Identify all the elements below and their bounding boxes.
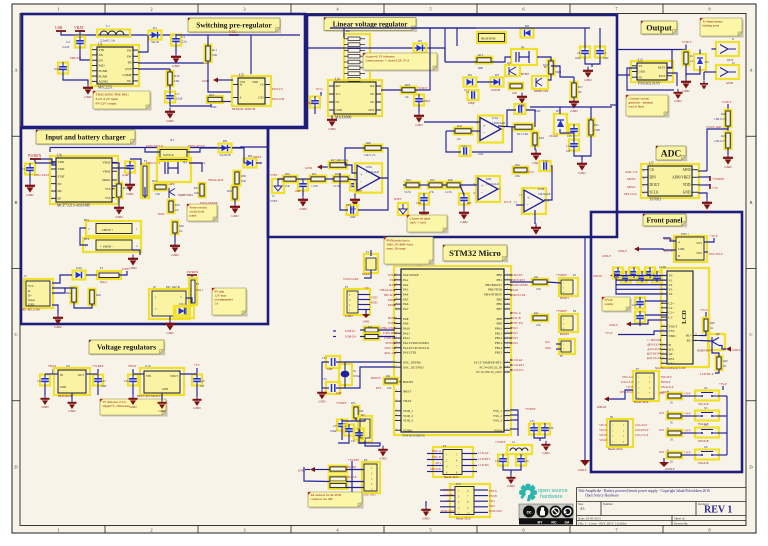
svg-text:P2: P2 <box>573 273 577 277</box>
svg-text:D+: D+ <box>28 294 32 298</box>
svg-text:GND: GND <box>422 517 430 521</box>
svg-text:PA7: PA7 <box>403 307 409 311</box>
svg-text:SA: SA <box>565 521 570 525</box>
svg-text:PA14/TCK/SWCLK: PA14/TCK/SWCLK <box>403 346 430 350</box>
svg-text:P4: P4 <box>573 309 577 313</box>
svg-text:R35: R35 <box>430 179 435 182</box>
svg-text:9V-22V output: 9V-22V output <box>96 102 117 106</box>
svg-text:SW4-P-B: SW4-P-B <box>698 462 709 465</box>
svg-text:BL+: BL+ <box>686 334 692 338</box>
svg-text:R: R <box>667 391 669 394</box>
svg-text:EN: EN <box>99 58 104 62</box>
svg-text:VSS_3: VSS_3 <box>493 419 502 423</box>
svg-text:COMP: COMP <box>122 73 131 77</box>
svg-text:+3VREF: +3VREF <box>712 177 724 181</box>
svg-text:GND: GND <box>129 266 137 270</box>
svg-text:+3VREF: +3VREF <box>556 273 567 277</box>
svg-text:VBAT-ADC: VBAT-ADC <box>208 178 224 182</box>
svg-text:10nF: 10nF <box>535 110 541 113</box>
svg-text:LCD-CL-P: LCD-CL-P <box>621 381 634 384</box>
svg-text:22u: 22u <box>182 40 187 44</box>
svg-text:U8A: U8A <box>366 165 373 169</box>
svg-text:1K: 1K <box>710 327 713 330</box>
svg-text:Input and battery charger: Input and battery charger <box>45 134 126 142</box>
svg-text:BL-: BL- <box>687 339 692 343</box>
svg-text:STAT: STAT <box>58 175 65 179</box>
svg-text:CHG-STAT: CHG-STAT <box>34 173 49 177</box>
svg-text:RXD: RXD <box>389 283 397 287</box>
svg-text:GND: GND <box>54 325 62 329</box>
svg-text:X5: X5 <box>704 424 708 427</box>
svg-text:Header 5X2A: Header 5X2A <box>634 401 649 404</box>
svg-text:+3V-P: +3V-P <box>684 393 691 396</box>
svg-text:MISO: MISO <box>627 185 636 189</box>
svg-text:C10: C10 <box>519 103 524 107</box>
svg-text:GND-P: GND-P <box>665 467 675 471</box>
svg-text:V1: V1 <box>669 278 673 282</box>
svg-text:BOOT1: BOOT1 <box>560 297 570 300</box>
svg-text:C21: C21 <box>37 380 42 383</box>
svg-text:D8: D8 <box>248 154 252 158</box>
svg-text:R11: R11 <box>212 48 217 52</box>
svg-text:C36: C36 <box>549 427 554 430</box>
svg-text:LCD1: LCD1 <box>659 265 667 269</box>
svg-text:RST: RST <box>669 357 675 361</box>
svg-text:GND: GND <box>570 109 578 113</box>
svg-text:GND: GND <box>193 406 201 410</box>
svg-text:File: 1 - Cover - REV_REV: File: 1 - Cover - REV_REV 1.SchDoc <box>578 522 627 526</box>
svg-text:SI: SI <box>669 343 672 347</box>
svg-text:AIN0/VREF: AIN0/VREF <box>672 175 690 179</box>
svg-text:NA5W-K: NA5W-K <box>163 154 174 157</box>
svg-text:R13: R13 <box>478 53 484 57</box>
svg-text:U2: U2 <box>638 59 643 63</box>
svg-text:PAD: PAD <box>99 64 106 68</box>
svg-text:POT-CS: POT-CS <box>272 87 283 91</box>
svg-text:CS: CS <box>260 83 264 87</box>
svg-text:COM: COM <box>678 248 685 251</box>
svg-text:C2-: C2- <box>669 306 674 310</box>
svg-text:BOOT0: BOOT0 <box>371 376 381 380</box>
svg-text:VOUT: VOUT <box>170 374 178 378</box>
svg-text:DIN: DIN <box>650 175 657 179</box>
svg-text:P10: P10 <box>456 482 461 486</box>
svg-text:OUT: OUT <box>78 373 84 377</box>
svg-text:PB4/JNTRST: PB4/JNTRST <box>484 293 502 297</box>
svg-text:LCD-A0: LCD-A0 <box>512 358 523 362</box>
svg-text:PA4: PA4 <box>403 293 409 297</box>
svg-text:Drawn By:: Drawn By: <box>674 522 688 526</box>
svg-text:PB15: PB15 <box>495 351 502 355</box>
svg-text:+3V-P: +3V-P <box>684 413 691 416</box>
svg-text:GND: GND <box>507 484 515 488</box>
svg-text:1K: 1K <box>670 439 673 442</box>
svg-text:GND: GND <box>28 303 34 307</box>
svg-text:U6: U6 <box>57 154 62 158</box>
svg-text:1: 1 <box>57 7 59 12</box>
svg-text:10K: 10K <box>212 53 218 57</box>
svg-text:VDDA: VDDA <box>403 428 413 432</box>
svg-text:100nF: 100nF <box>330 430 337 433</box>
svg-text:SPOT-CTR: SPOT-CTR <box>512 293 525 297</box>
svg-text:C39: C39 <box>495 460 500 463</box>
svg-text:D9: D9 <box>223 139 227 143</box>
svg-text:NC: NC <box>370 100 374 104</box>
svg-text:VOUT-ADC: VOUT-ADC <box>343 277 359 281</box>
svg-text:1uF: 1uF <box>200 385 205 388</box>
svg-text:R21 2.2K: R21 2.2K <box>517 132 529 136</box>
svg-text:2.4K 0.1%: 2.4K 0.1% <box>714 140 727 143</box>
svg-text:U3A: U3A <box>492 116 499 120</box>
svg-text:C: C <box>749 332 752 337</box>
svg-text:PA6: PA6 <box>403 302 409 306</box>
svg-text:VDD: VDD <box>669 334 677 338</box>
svg-text:PA2: PA2 <box>403 283 409 287</box>
svg-text:+3VREF: +3VREF <box>92 364 104 368</box>
svg-text:ENCB: ENCB <box>489 494 497 498</box>
svg-text:47K: 47K <box>285 185 290 188</box>
svg-text:VBAT: VBAT <box>403 399 411 403</box>
svg-text:Sense: Sense <box>28 298 35 302</box>
svg-text:R35: R35 <box>175 203 180 207</box>
svg-text:LM324AD: LM324AD <box>366 170 379 174</box>
svg-text:ADC: ADC <box>661 149 682 159</box>
svg-text:A: A <box>678 241 680 244</box>
svg-text:hardware: hardware <box>540 494 562 500</box>
svg-text:22nF: 22nF <box>478 153 484 156</box>
svg-text:PB10: PB10 <box>495 326 502 330</box>
svg-text:POW-SW1: POW-SW1 <box>441 509 455 513</box>
svg-text:PB9: PB9 <box>497 322 503 326</box>
svg-text:SW1-P: SW1-P <box>599 424 607 427</box>
svg-text:10K: 10K <box>359 410 364 413</box>
svg-text:V3: V3 <box>669 288 673 292</box>
svg-text:PROG: PROG <box>102 178 111 182</box>
svg-text:1N4148: 1N4148 <box>491 89 501 92</box>
svg-text:USB-D-: USB-D- <box>345 329 356 333</box>
svg-text:C11: C11 <box>462 144 467 148</box>
svg-text:180pF: 180pF <box>468 102 475 105</box>
svg-text:BT2: BT2 <box>84 237 90 241</box>
svg-text:VCC: VCC <box>528 170 535 174</box>
svg-text:OSC_IN/PD0: OSC_IN/PD0 <box>403 360 421 364</box>
svg-text:R18: R18 <box>405 83 411 87</box>
svg-text:GND: GND <box>379 457 387 461</box>
svg-text:R33: R33 <box>351 402 356 405</box>
svg-text:PB14: PB14 <box>495 346 502 350</box>
svg-text:GND: GND <box>172 64 180 68</box>
svg-text:ENC-A: ENC-A <box>432 449 442 453</box>
svg-text:R52: R52 <box>660 412 665 415</box>
svg-text:GND: GND <box>584 78 592 82</box>
svg-text:SW1: SW1 <box>696 242 702 245</box>
svg-text:PC13-TAMPER-RTC: PC13-TAMPER-RTC <box>474 360 502 364</box>
svg-text:V0: V0 <box>669 274 673 278</box>
svg-text:PB3/JTDO: PB3/JTDO <box>488 288 503 292</box>
svg-text:VSS: VSS <box>105 187 111 191</box>
svg-text:PB8: PB8 <box>497 317 503 321</box>
svg-text:GND: GND <box>578 171 586 175</box>
svg-text:D5: D5 <box>418 39 422 43</box>
svg-text:Q6: Q6 <box>716 332 720 336</box>
svg-text:BOOT0: BOOT0 <box>560 333 570 336</box>
svg-text:SCLK: SCLK <box>650 190 660 194</box>
svg-text:REV 1: REV 1 <box>704 505 732 516</box>
svg-text:R42: R42 <box>534 312 539 315</box>
svg-text:LCD-RST-P: LCD-RST-P <box>635 429 649 432</box>
svg-text:VSET: VSET <box>270 199 278 203</box>
svg-text:NC: NC <box>370 92 374 96</box>
svg-text:PGND: PGND <box>99 69 108 73</box>
svg-text:GND-P: GND-P <box>609 323 618 327</box>
svg-text:SCL: SCL <box>545 340 551 344</box>
svg-text:Output: Output <box>646 23 672 32</box>
svg-text:ENCA: ENCA <box>489 489 498 493</box>
svg-text:LCD-RST: LCD-RST <box>512 363 524 367</box>
svg-text:C1+: C1+ <box>669 311 675 315</box>
svg-text:R49: R49 <box>723 360 728 363</box>
svg-text:RST: RST <box>376 386 382 390</box>
svg-text:PB12: PB12 <box>495 336 502 340</box>
svg-text:U5: U5 <box>239 74 244 78</box>
svg-text:ENC-SW: ENC-SW <box>443 488 454 492</box>
svg-text:U8C: U8C <box>486 177 492 181</box>
svg-text:10K: 10K <box>387 387 392 390</box>
svg-text:R17: R17 <box>578 85 583 89</box>
svg-text:V2: V2 <box>669 283 673 287</box>
svg-text:10K: 10K <box>536 288 541 291</box>
svg-text:+3V-P: +3V-P <box>719 382 727 386</box>
svg-text:ICUT: ICUT <box>504 200 511 204</box>
svg-text:C2: C2 <box>66 40 70 44</box>
svg-text:GND: GND <box>26 193 34 197</box>
svg-text:R22: R22 <box>457 124 463 128</box>
svg-text:GND-P: GND-P <box>602 254 611 258</box>
svg-text:C2+: C2+ <box>669 301 675 305</box>
svg-text:U1: U1 <box>98 43 103 47</box>
svg-text:MMBT1504: MMBT1504 <box>534 90 549 93</box>
svg-text:1N4148: 1N4148 <box>549 135 558 138</box>
svg-text:R50: R50 <box>660 392 665 395</box>
svg-text:LCD-CS1-P: LCD-CS1-P <box>635 434 649 437</box>
svg-text:USB: USB <box>55 26 63 30</box>
svg-text:VDD_2: VDD_2 <box>403 414 413 418</box>
svg-text:GND: GND <box>682 89 690 93</box>
svg-text:MIC2251: MIC2251 <box>98 86 113 90</box>
svg-text:ENC-B-P: ENC-B-P <box>661 376 672 379</box>
svg-text:CS1: CS1 <box>669 361 675 365</box>
svg-text:14K 0.1%: 14K 0.1% <box>364 154 376 157</box>
svg-text:14.7K: 14.7K <box>445 191 452 194</box>
svg-text:GND: GND <box>158 409 166 413</box>
svg-text:1mA -> 1mA: 1mA -> 1mA <box>410 220 427 224</box>
svg-text:C26: C26 <box>632 304 637 307</box>
svg-text:VDD: VDD <box>683 183 691 187</box>
svg-text:MAX6890: MAX6890 <box>335 116 352 120</box>
svg-text:GND: GND <box>726 81 734 85</box>
svg-text:LCD-CS1: LCD-CS1 <box>512 368 524 372</box>
svg-text:MC: MC <box>58 189 63 193</box>
svg-text:PA1: PA1 <box>403 278 409 282</box>
svg-text:SW4: SW4 <box>512 341 518 345</box>
svg-text:SOW: SOW <box>512 288 519 292</box>
svg-text:10K: 10K <box>512 92 517 95</box>
svg-text:C35: C35 <box>530 420 535 423</box>
svg-text:+3V-P: +3V-P <box>684 430 691 433</box>
svg-text:5A1018: 5A1018 <box>220 153 231 157</box>
svg-text:VSS: VSS <box>669 329 675 333</box>
svg-text:2.2uF: 2.2uF <box>122 173 129 177</box>
svg-text:SW1-P-B: SW1-P-B <box>698 403 709 406</box>
svg-text:10K: 10K <box>515 175 520 178</box>
svg-text:U5D: U5D <box>538 187 545 191</box>
svg-text:C7: C7 <box>176 92 180 96</box>
svg-text:PA9: PA9 <box>403 322 409 326</box>
svg-text:GND: GND <box>171 253 179 257</box>
svg-text:C22: C22 <box>101 380 106 383</box>
svg-text:V4: V4 <box>669 292 673 296</box>
svg-text:2ohm resistors -> about 0.2R 1: 2ohm resistors -> about 0.2R 1V/A <box>366 58 410 62</box>
svg-text:RXD: RXD <box>371 301 378 305</box>
svg-text:PC15-OSC32_OUT: PC15-OSC32_OUT <box>476 370 502 374</box>
svg-text:SW3-P: SW3-P <box>599 434 607 437</box>
svg-text:C14: C14 <box>566 145 571 148</box>
svg-text:10pF: 10pF <box>336 392 342 395</box>
svg-text:GND: GND <box>162 387 168 391</box>
svg-text:+3V: +3V <box>194 363 200 367</box>
svg-text:GND: GND <box>532 235 540 239</box>
svg-text:2: 2 <box>150 7 152 12</box>
svg-text:IOUT: IOUT <box>659 74 666 78</box>
svg-text:GND: GND <box>41 405 49 409</box>
svg-text:load of 9mA: load of 9mA <box>629 104 645 108</box>
svg-text:PA5: PA5 <box>403 297 409 301</box>
svg-text:POT-A/B: POT-A/B <box>272 97 284 101</box>
svg-text:8nF: 8nF <box>467 202 472 205</box>
svg-text:3.2V-4.2V input: 3.2V-4.2V input <box>96 97 119 101</box>
svg-text:NC: NC <box>551 521 557 525</box>
svg-text:+3V: +3V <box>364 287 369 290</box>
svg-text:VSSA: VSSA <box>494 428 503 432</box>
svg-text:AGND: AGND <box>99 80 109 84</box>
svg-text:Sheet of: Sheet of <box>674 516 685 520</box>
svg-text:USB-D+: USB-D+ <box>345 335 357 339</box>
svg-text:R51: R51 <box>368 326 373 329</box>
svg-text:ENC-SW-P: ENC-SW-P <box>709 252 723 256</box>
svg-text:1K: 1K <box>723 365 726 368</box>
svg-text:R27 24K 0.1%: R27 24K 0.1% <box>331 159 348 162</box>
svg-text:R53: R53 <box>660 429 665 432</box>
svg-text:D10: D10 <box>76 266 82 270</box>
svg-text:R33: R33 <box>152 179 157 183</box>
svg-text:GND: GND <box>674 99 682 103</box>
svg-text:DSET: DSET <box>394 197 402 201</box>
svg-text:VDD: VDD <box>58 167 65 171</box>
svg-text:+3VREF: +3VREF <box>556 309 567 313</box>
svg-text:MOSI-P: MOSI-P <box>651 339 661 342</box>
svg-text:R29: R29 <box>366 141 371 145</box>
svg-text:TXD: TXD <box>389 278 396 282</box>
svg-text:PB6: PB6 <box>497 302 503 306</box>
svg-text:OSC-B: OSC-B <box>512 316 521 320</box>
svg-text:SW3: SW3 <box>512 336 518 340</box>
svg-text:R36: R36 <box>179 224 184 228</box>
svg-text:PRE-EN: PRE-EN <box>70 56 82 60</box>
svg-text:SW1: SW1 <box>512 326 518 330</box>
svg-text:Vcc: Vcc <box>336 92 341 96</box>
svg-text:X2: X2 <box>704 387 708 390</box>
svg-text:1K: 1K <box>670 402 673 405</box>
svg-text:VOUT: VOUT <box>682 40 692 44</box>
svg-text:VS: VS <box>639 64 643 68</box>
svg-text:GND: GND <box>84 95 92 99</box>
svg-text:B: B <box>14 200 17 205</box>
svg-text:R: R <box>667 428 669 431</box>
svg-text:STM32 Micro: STM32 Micro <box>449 248 501 258</box>
svg-text:GND: GND <box>703 210 711 214</box>
svg-text:GND: GND <box>328 127 336 131</box>
svg-text:LCD: LCD <box>681 310 688 324</box>
svg-text:XX: XX <box>99 53 104 57</box>
svg-text:LCD-A0-P: LCD-A0-P <box>648 348 660 351</box>
svg-text:NewHaven Display LCD: NewHaven Display LCD <box>655 366 686 370</box>
svg-text:Date: 29-05-2013: Date: 29-05-2013 <box>578 516 601 520</box>
svg-text:SW2: SW2 <box>489 504 495 508</box>
svg-text:REF196GS8: REF196GS8 <box>58 395 73 398</box>
svg-text:GND: GND <box>129 405 137 409</box>
svg-text:PWREN: PWREN <box>187 270 199 274</box>
svg-text:R20: R20 <box>721 112 726 116</box>
svg-text:R46: R46 <box>96 293 101 297</box>
svg-text:STM32F105RBT6: STM32F105RBT6 <box>402 434 425 438</box>
svg-text:C13: C13 <box>567 135 572 138</box>
svg-text:GND: GND <box>202 79 210 83</box>
svg-text:DOUT: DOUT <box>650 183 661 187</box>
svg-text:VBAT: VBAT <box>102 169 110 173</box>
svg-text:NC: NC <box>639 75 643 79</box>
svg-text:7.47K: 7.47K <box>311 185 318 188</box>
svg-text:+3VREF: +3VREF <box>336 401 347 405</box>
svg-text:C20: C20 <box>346 204 351 207</box>
svg-text:2: 2 <box>150 528 152 533</box>
svg-text:R: R <box>667 450 669 453</box>
svg-text:LM324AD: LM324AD <box>486 182 499 186</box>
svg-text:VSS_1: VSS_1 <box>493 409 502 413</box>
svg-text:NC: NC <box>127 79 131 83</box>
svg-text:MIC-B02_USB4: MIC-B02_USB4 <box>22 309 40 312</box>
svg-text:SW2: SW2 <box>696 252 702 255</box>
svg-text:VBAT: VBAT <box>253 155 261 159</box>
svg-text:A0: A0 <box>669 352 673 356</box>
svg-text:LCD-BL: LCD-BL <box>444 493 455 497</box>
svg-text:PA13/TMS/SWDIO: PA13/TMS/SWDIO <box>403 341 429 345</box>
svg-text:VBAT: VBAT <box>74 26 85 30</box>
svg-text:SW4-P: SW4-P <box>599 439 607 442</box>
svg-text:PB0: PB0 <box>497 273 503 277</box>
svg-text:Q1: Q1 <box>521 45 525 49</box>
svg-text:10nF: 10nF <box>295 190 301 193</box>
svg-text:10nF: 10nF <box>54 67 61 71</box>
svg-text:+3V-P: +3V-P <box>605 331 613 335</box>
svg-text:LCD-A0: LCD-A0 <box>478 451 489 455</box>
svg-text:+3V-P: +3V-P <box>710 234 718 238</box>
svg-text:OVP: OVP <box>125 67 132 71</box>
svg-text:PGND: PGND <box>99 74 108 78</box>
svg-text:X3: X3 <box>704 407 708 410</box>
svg-text:VSS: VSS <box>240 81 246 84</box>
svg-text:100pF: 100pF <box>306 102 314 105</box>
svg-text:1K: 1K <box>670 461 673 464</box>
